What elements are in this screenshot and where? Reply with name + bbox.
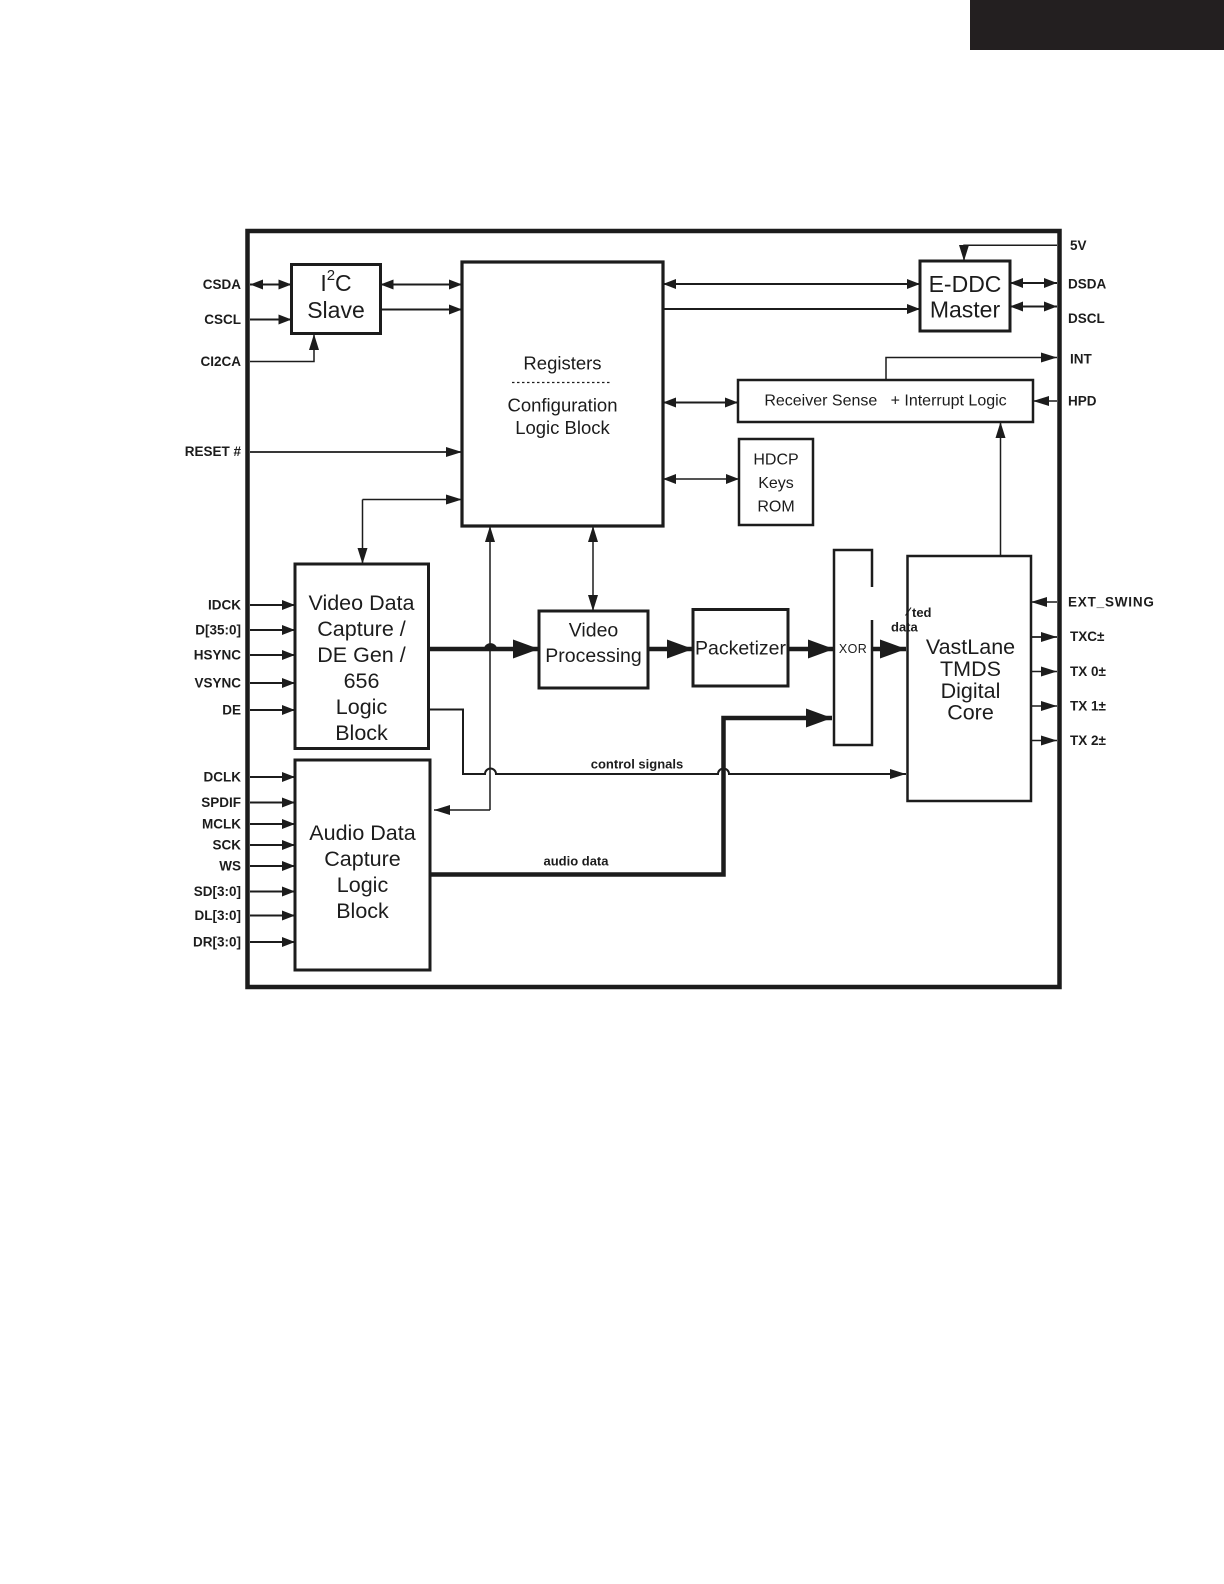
svg-text:Video: Video	[569, 620, 619, 642]
svg-text:Logic: Logic	[336, 695, 388, 719]
svg-text:Logic: Logic	[337, 873, 389, 897]
svg-text:Core: Core	[947, 701, 994, 725]
svg-text:INT: INT	[1070, 352, 1093, 367]
svg-text:RESET #: RESET #	[185, 444, 242, 459]
svg-text:Block: Block	[335, 721, 388, 745]
svg-text:audio data: audio data	[543, 854, 609, 869]
svg-text:TX 1±: TX 1±	[1070, 699, 1107, 714]
svg-text:Processing: Processing	[545, 645, 641, 667]
svg-text:Master: Master	[930, 297, 1001, 323]
svg-text:DL[3:0]: DL[3:0]	[195, 908, 242, 923]
svg-text:Slave: Slave	[307, 297, 365, 323]
svg-text:E-DDC: E-DDC	[929, 271, 1002, 297]
svg-text:CI2CA: CI2CA	[200, 354, 241, 369]
svg-text:SCK: SCK	[212, 838, 241, 853]
svg-text:I2C: I2C	[320, 267, 351, 297]
svg-text:CSCL: CSCL	[204, 312, 241, 327]
svg-text:DSCL: DSCL	[1068, 311, 1105, 326]
svg-text:Configuration: Configuration	[507, 395, 617, 416]
svg-text:Capture /: Capture /	[317, 617, 405, 641]
svg-text:SPDIF: SPDIF	[201, 795, 241, 810]
svg-text:656: 656	[344, 669, 380, 693]
svg-text:Block: Block	[336, 899, 389, 923]
svg-text:Registers: Registers	[523, 353, 601, 374]
svg-text:XOR: XOR	[839, 642, 867, 656]
svg-text:D[35:0]: D[35:0]	[195, 623, 241, 638]
svg-text:VSYNC: VSYNC	[194, 676, 241, 691]
svg-text:HDCP: HDCP	[753, 452, 798, 469]
svg-text:TXC±: TXC±	[1070, 629, 1105, 644]
svg-text:DSDA: DSDA	[1068, 277, 1107, 292]
svg-text:DR[3:0]: DR[3:0]	[193, 935, 241, 950]
svg-text:MCLK: MCLK	[202, 817, 241, 832]
svg-text:Audio Data: Audio Data	[309, 821, 415, 845]
svg-text:DE Gen /: DE Gen /	[317, 643, 405, 667]
svg-text:WS: WS	[219, 859, 241, 874]
svg-text:TMDS: TMDS	[940, 657, 1001, 681]
svg-text:Digital: Digital	[941, 679, 1001, 703]
svg-text:HSYNC: HSYNC	[194, 648, 242, 663]
svg-text:Receiver Sense + Interrupt L: Receiver Sense + Interrupt Logic	[764, 393, 1006, 410]
svg-text:IDCK: IDCK	[208, 598, 241, 613]
svg-text:Packetizer: Packetizer	[695, 638, 787, 660]
svg-text:SD[3:0]: SD[3:0]	[194, 884, 241, 899]
svg-text:TX 0±: TX 0±	[1070, 664, 1107, 679]
svg-text:Capture: Capture	[324, 847, 401, 871]
svg-text:ROM: ROM	[757, 499, 794, 516]
svg-text:ted: ted	[912, 605, 932, 620]
svg-text:CSDA: CSDA	[203, 277, 242, 292]
svg-text:control signals: control signals	[591, 757, 683, 772]
svg-text:HPD: HPD	[1068, 394, 1097, 409]
svg-text:5V: 5V	[1070, 238, 1087, 253]
svg-text:data: data	[891, 620, 919, 635]
svg-text:Video Data: Video Data	[309, 591, 415, 615]
svg-text:EXT_SWING: EXT_SWING	[1068, 595, 1155, 610]
svg-text:DCLK: DCLK	[204, 770, 242, 785]
svg-text:TX 2±: TX 2±	[1070, 733, 1107, 748]
svg-text:DE: DE	[222, 703, 241, 718]
svg-text:Logic Block: Logic Block	[515, 417, 610, 438]
svg-text:Keys: Keys	[758, 475, 794, 492]
svg-text:VastLane: VastLane	[926, 635, 1015, 659]
